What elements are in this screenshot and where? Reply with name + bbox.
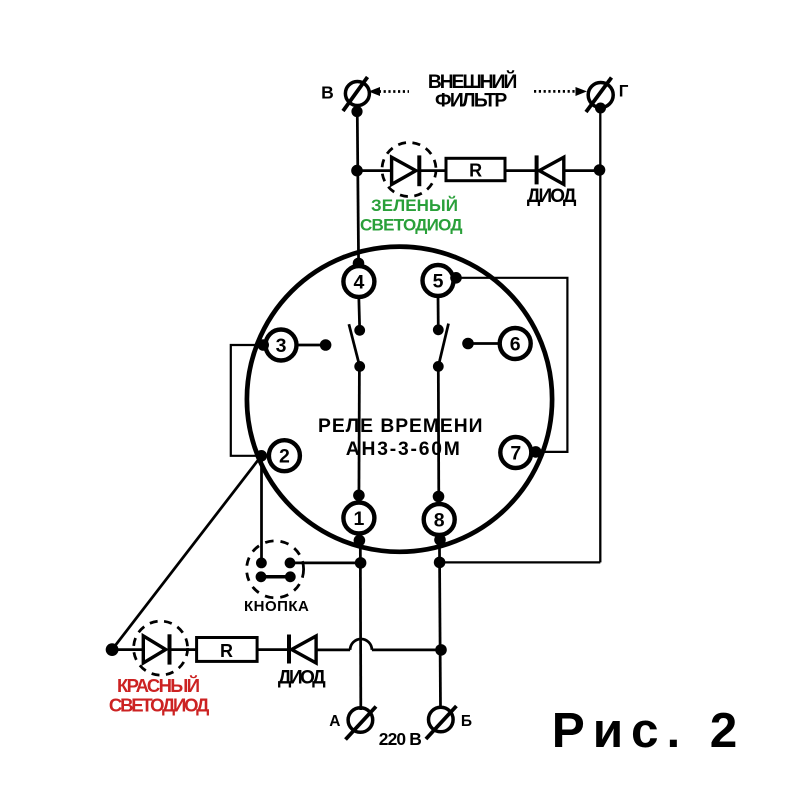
wire: hop to Б wire	[372, 649, 441, 652]
wire stub from pin 6 to contact dot	[468, 342, 500, 345]
wire: switch S1 to pin 1	[358, 366, 361, 503]
node dot left of pin 3	[257, 339, 269, 351]
resistor R (bottom)	[197, 638, 258, 662]
wire: Г terminal down right side	[599, 106, 601, 562]
green LED D1 (triangle)	[392, 157, 416, 184]
pin 1	[343, 503, 374, 534]
dashed circle around button	[247, 541, 304, 598]
wire: pin 2 down to button	[260, 456, 263, 563]
svg-text:Б: Б	[461, 713, 472, 730]
svg-text:ДИОД: ДИОД	[527, 186, 577, 207]
svg-text:R: R	[220, 641, 233, 661]
wire: resistor to diode	[505, 169, 537, 172]
node dot: green LED row left junction	[351, 165, 363, 177]
wire: resistor to diode	[257, 648, 289, 651]
switch S2 bottom contact dot	[433, 361, 444, 372]
node dot on Б wire at right link	[434, 557, 446, 569]
wire: diode to hop	[316, 649, 350, 652]
pin 2	[269, 440, 300, 471]
label ВНЕШНИЙ ФИЛЬТР	[428, 69, 517, 112]
wire: red LED to resistor	[170, 648, 197, 651]
svg-text:5: 5	[433, 270, 444, 292]
svg-text:8: 8	[434, 509, 445, 531]
wire bracket: pin 5 to pin 7	[456, 278, 567, 452]
svg-text:R: R	[469, 160, 482, 180]
switch S2 top contact dot	[433, 324, 444, 335]
wire: LED to resistor R	[419, 169, 446, 172]
node dot right of pin 7	[530, 446, 542, 458]
terminal Г	[586, 78, 613, 113]
terminal А	[346, 707, 377, 740]
svg-text:2: 2	[279, 446, 290, 468]
green LED cathode bar	[417, 155, 421, 186]
terminal В	[343, 77, 369, 111]
diode VD2 (triangle pointing left)	[292, 636, 317, 663]
svg-text:СВЕТОДИОД: СВЕТОДИОД	[360, 215, 463, 234]
label КРАСНЫЙ СВЕТОДИОД	[109, 675, 209, 716]
diode VD1 cathode bar	[535, 155, 539, 184]
svg-text:СВЕТОДИОД: СВЕТОДИОД	[109, 695, 209, 716]
red LED D2 (triangle)	[143, 636, 165, 663]
wire: junction to green LED	[357, 169, 392, 172]
wire: left dot to red LED	[112, 648, 143, 651]
diode VD2 cathode bar	[287, 635, 291, 664]
svg-text:3: 3	[276, 335, 287, 357]
button КНОПКА contacts	[256, 558, 296, 583]
svg-text:220 В: 220 В	[379, 729, 422, 749]
label РЕЛЕ ВРЕМЕНИ АН3-3-60М	[318, 416, 483, 460]
red LED cathode bar	[168, 634, 172, 664]
wire: В terminal down to pin 4	[357, 104, 358, 266]
node dot on А wire at button line	[355, 557, 367, 569]
wire: pin 1 down to terminal А	[359, 533, 362, 710]
wire: button to А wire	[290, 562, 361, 565]
switch S2 blade	[438, 324, 448, 367]
node dot: green LED row right junction	[594, 164, 606, 176]
wire stub from pin 3 to contact dot	[297, 344, 326, 347]
resistor R (top)	[446, 158, 505, 180]
node dot above pin 1	[353, 490, 365, 502]
svg-text:1: 1	[353, 508, 364, 530]
pin 6	[500, 328, 531, 359]
pin 5	[423, 265, 454, 296]
node dot above pin 4	[353, 258, 365, 270]
wire bracket: pin 3 to pin 2	[231, 345, 263, 456]
wire: Б wire to right side vertical	[440, 561, 601, 563]
node dot below terminal В	[351, 106, 362, 117]
diode VD1 (triangle pointing left)	[539, 157, 564, 184]
dotted arrow to terminal Г	[534, 87, 587, 96]
svg-text:6: 6	[510, 333, 521, 355]
node dot below pin 1	[354, 535, 366, 547]
label ЗЕЛЕНЫЙ СВЕТОДИОД	[360, 196, 463, 235]
svg-text:В: В	[321, 83, 334, 103]
svg-text:РЕЛЕ ВРЕМЕНИ: РЕЛЕ ВРЕМЕНИ	[318, 416, 483, 437]
svg-text:КНОПКА: КНОПКА	[244, 598, 309, 615]
node dot: red row on Б wire	[435, 644, 447, 656]
switch S1 top contact dot	[354, 325, 365, 336]
wire: diode to right junction	[564, 169, 601, 172]
wire: pin 2 diagonal to red LED	[112, 456, 261, 650]
dotted arrow to terminal В	[369, 87, 410, 96]
node dot left of pin 2	[256, 450, 268, 462]
wire hop over А line	[350, 639, 372, 650]
dashed circle around green LED	[382, 143, 436, 197]
wire: pin 4 to switch contact	[357, 297, 361, 331]
node dot below pin 8	[434, 534, 446, 546]
pin 8	[424, 504, 455, 535]
svg-text:ЗЕЛЕНЫЙ: ЗЕЛЕНЫЙ	[371, 196, 458, 215]
svg-text:7: 7	[510, 442, 521, 464]
svg-text:ДИОД: ДИОД	[278, 668, 326, 689]
dashed circle around red LED	[134, 621, 188, 675]
wire: switch S2 to pin 8	[437, 366, 440, 504]
node dot: red LED row left end	[106, 643, 119, 656]
node dot right of pin 5	[450, 272, 462, 284]
svg-text:4: 4	[353, 271, 364, 293]
switch S1 bottom contact dot	[354, 361, 365, 372]
svg-text:Рис. 2: Рис. 2	[552, 703, 738, 758]
relay socket big circle	[247, 247, 552, 552]
svg-text:ФИЛЬТР: ФИЛЬТР	[435, 91, 507, 112]
pin 3	[266, 330, 297, 361]
pin 4	[343, 266, 374, 297]
contact dot right of pin 3	[320, 339, 332, 351]
svg-text:КРАСНЫЙ: КРАСНЫЙ	[117, 675, 200, 696]
node dot above pin 8	[433, 491, 445, 503]
svg-text:ВНЕШНИЙ: ВНЕШНИЙ	[428, 69, 517, 93]
svg-text:Г: Г	[619, 82, 629, 101]
switch S1 blade	[349, 324, 360, 366]
wire: pin 8 down to terminal Б	[439, 535, 440, 710]
terminal Б	[426, 706, 457, 739]
contact dot left of pin 6	[462, 338, 474, 350]
pin 7	[500, 437, 531, 468]
node dot below terminal Г	[595, 103, 606, 114]
wire: pin 5 to switch contact	[437, 296, 440, 330]
svg-text:А: А	[329, 713, 340, 730]
